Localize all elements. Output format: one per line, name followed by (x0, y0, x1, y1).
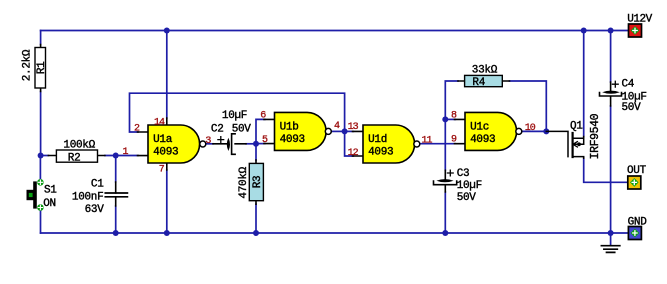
svg-text:100kΩ: 100kΩ (63, 139, 95, 151)
svg-text:4093: 4093 (470, 134, 495, 146)
wire R2 left lead (41, 155, 49, 157)
svg-text:50V: 50V (232, 123, 252, 135)
svg-text:U1a: U1a (153, 134, 173, 146)
svg-text:50V: 50V (622, 102, 642, 114)
svg-text:10: 10 (525, 123, 536, 134)
svg-text:U1c: U1c (470, 122, 489, 134)
junction R1/R2/S1 node (38, 153, 44, 159)
svg-text:10µF: 10µF (457, 180, 482, 192)
svg-text:100nF: 100nF (72, 191, 104, 203)
junction ground bus / C4 / ground symbol (608, 230, 614, 236)
svg-text:2: 2 (134, 124, 140, 135)
wire R2 right lead to C1 node and U1a pin1 (105, 155, 138, 157)
nand gate U1c (455, 112, 522, 150)
svg-text:50V: 50V (457, 192, 477, 204)
svg-text:63V: 63V (85, 204, 105, 216)
svg-text:R3: R3 (252, 176, 264, 189)
wire U1b output pin4 to node 4/13 (331, 130, 345, 132)
nand gate U1d (353, 125, 420, 163)
nand gate U1b (264, 112, 331, 150)
svg-text:U12V: U12V (627, 14, 652, 26)
svg-text:33kΩ: 33kΩ (472, 64, 498, 76)
ground symbol (601, 246, 619, 253)
wire U1a pin7 to ground bus (166, 170, 168, 233)
junction R2/C1/U1a pin1 node (113, 153, 119, 159)
resistor R1 (35, 45, 46, 92)
svg-text:12: 12 (348, 148, 359, 159)
wire C1 top lead (115, 156, 117, 183)
wire node 4/13 to U1d pin13 (345, 130, 354, 132)
junction ground bus / C3 (442, 230, 448, 236)
junction ground bus / U1a pin7 (164, 230, 170, 236)
wire C4 top lead from top bus (610, 31, 612, 83)
resistor R3 (249, 160, 263, 204)
wire node 8 to U1c pin8 (445, 118, 455, 120)
svg-text:Q1: Q1 (570, 121, 583, 133)
wire feedback U1a pin2 up over to node 4/13 (130, 93, 345, 132)
nand gate U1a (138, 118, 206, 170)
wire R2 node down to S1 top pin (39, 156, 41, 180)
svg-text:470kΩ: 470kΩ (238, 166, 250, 198)
svg-text:10µF: 10µF (222, 110, 247, 122)
wire C4 bottom lead to ground bus (610, 106, 612, 233)
wire C1 bottom lead to ground bus (115, 206, 117, 233)
svg-text:S1: S1 (44, 185, 57, 197)
wire R4 right lead down to node 10 (510, 81, 547, 131)
transistor Q1 (546, 131, 583, 158)
node 10 junction U1c out/R4/Q1 gate (543, 128, 549, 134)
wire U1c output pin10 to node 10 (522, 130, 546, 132)
svg-text:3: 3 (205, 136, 211, 147)
wire node 5 to U1b pin5 (256, 143, 265, 145)
junction top bus / C4 branch (608, 28, 614, 34)
wire Q1 drain down and right to OUT terminal (584, 158, 628, 182)
resistor R2 (48, 150, 105, 162)
capacitor C3 (434, 170, 457, 192)
wire R1 top lead to bus (40, 31, 42, 45)
svg-text:13: 13 (348, 122, 359, 133)
svg-text:IRF9540: IRF9540 (589, 113, 602, 159)
svg-text:11: 11 (422, 136, 433, 147)
wire U1a output pin3 to C2 (205, 143, 213, 145)
svg-text:C4: C4 (622, 79, 635, 91)
junction ground bus / R3 (253, 230, 259, 236)
svg-text:7: 7 (159, 164, 165, 175)
capacitor C4 (600, 81, 622, 106)
svg-text:2.2kΩ: 2.2kΩ (22, 49, 34, 81)
svg-text:ON: ON (43, 198, 56, 210)
junction top bus / U1a pin14 (164, 28, 170, 34)
resistor R4 (458, 75, 510, 86)
svg-text:R2: R2 (68, 153, 81, 165)
wire R4 left lead down through node 8 to C3 (445, 81, 458, 170)
svg-text:GND: GND (628, 217, 648, 229)
svg-text:U1b: U1b (280, 122, 299, 134)
wire R1 bottom lead down to R2 node (40, 92, 42, 156)
svg-text:C1: C1 (91, 179, 104, 191)
svg-text:C3: C3 (457, 168, 470, 180)
node 8 junction R4/C3/U1c pin8 (442, 116, 448, 122)
terminal GND (628, 227, 641, 240)
wire C2 to node 5 (246, 143, 256, 145)
svg-text:4: 4 (334, 121, 340, 132)
svg-text:R1: R1 (36, 61, 48, 74)
wire node 5 down to R3 (255, 144, 257, 160)
junction ground bus / C1 (113, 230, 119, 236)
svg-text:14: 14 (154, 117, 165, 128)
wire U1d output pin11 to U1c pin9 (420, 143, 456, 145)
wire S1 bottom pin down to ground bus (40, 211, 42, 234)
wire U1a pin14 power from top bus (166, 31, 168, 119)
terminal U12V (629, 24, 642, 37)
svg-text:U1d: U1d (368, 134, 387, 146)
svg-text:R4: R4 (472, 77, 485, 89)
wire Q1 source up to top bus (583, 31, 585, 137)
wire R3 bottom to ground bus (255, 204, 257, 233)
wire node 5 up to U1b pin6 (256, 119, 265, 143)
wire ground bus stem to ground symbol (610, 233, 612, 245)
svg-text:4093: 4093 (368, 147, 393, 159)
switch S1 (27, 179, 44, 211)
svg-text:4093: 4093 (280, 134, 305, 146)
capacitor C2 (213, 134, 246, 155)
wire bottom ground bus (41, 232, 629, 234)
node 4/13 junction (342, 128, 348, 134)
junction top bus / Q1 source branch (581, 28, 587, 34)
svg-text:OUT: OUT (627, 165, 647, 177)
wire top supply bus (41, 30, 629, 32)
wire node 4/13 down to U1d pin12 (345, 131, 354, 156)
node 5 junction C2/R3/U1b (253, 141, 259, 147)
terminal OUT (628, 176, 641, 189)
svg-text:C2: C2 (211, 123, 224, 135)
svg-text:4093: 4093 (153, 147, 178, 159)
wire C3 bottom to ground bus (444, 192, 446, 233)
capacitor C1 (105, 182, 127, 206)
